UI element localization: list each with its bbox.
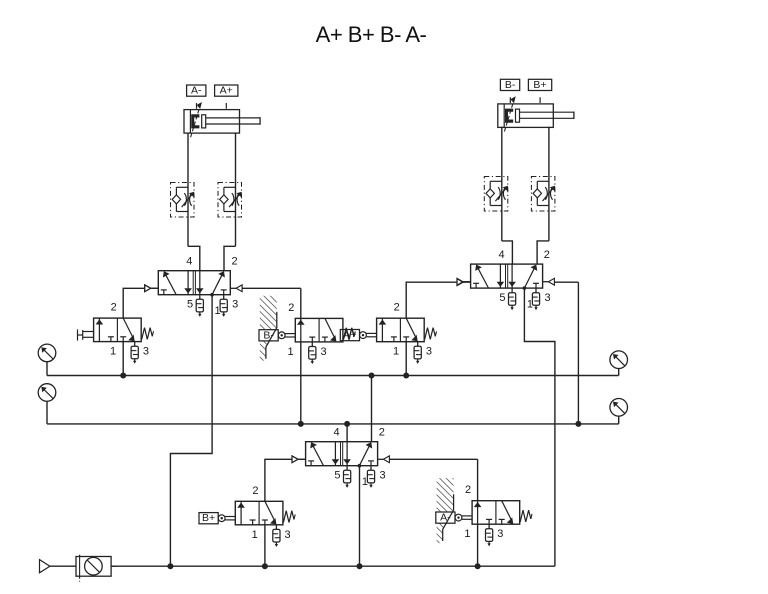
svg-text:3: 3	[544, 292, 550, 304]
svg-text:B-: B-	[505, 79, 516, 91]
svg-text:1: 1	[527, 299, 533, 311]
svg-text:3: 3	[426, 346, 432, 358]
svg-text:5: 5	[499, 292, 505, 304]
svg-text:2: 2	[379, 426, 385, 438]
svg-text:1: 1	[288, 346, 294, 358]
svg-text:4: 4	[334, 426, 340, 438]
svg-text:B+: B+	[533, 79, 546, 91]
svg-text:3: 3	[379, 470, 385, 482]
svg-text:5: 5	[334, 470, 340, 482]
svg-text:1: 1	[110, 346, 116, 358]
svg-text:2: 2	[231, 255, 237, 267]
svg-text:4: 4	[186, 255, 192, 267]
svg-text:1: 1	[215, 305, 221, 317]
svg-text:2: 2	[111, 302, 117, 314]
svg-text:2: 2	[544, 249, 550, 261]
svg-text:2: 2	[394, 302, 400, 314]
svg-text:2: 2	[465, 484, 471, 496]
svg-text:A+ B+ B- A-: A+ B+ B- A-	[316, 22, 427, 47]
svg-text:1: 1	[393, 346, 399, 358]
svg-text:1: 1	[252, 529, 258, 541]
svg-text:2: 2	[252, 485, 258, 497]
svg-text:1: 1	[464, 528, 470, 540]
svg-text:B+: B+	[202, 512, 215, 524]
svg-text:1: 1	[362, 476, 368, 488]
svg-text:3: 3	[320, 346, 326, 358]
svg-text:3: 3	[497, 528, 503, 540]
svg-text:A-: A-	[191, 85, 202, 97]
svg-text:3: 3	[285, 529, 291, 541]
svg-text:A+: A+	[220, 85, 233, 97]
svg-text:5: 5	[187, 299, 193, 311]
svg-text:3: 3	[232, 299, 238, 311]
svg-text:2: 2	[288, 302, 294, 314]
svg-text:4: 4	[499, 249, 505, 261]
svg-text:3: 3	[143, 346, 149, 358]
